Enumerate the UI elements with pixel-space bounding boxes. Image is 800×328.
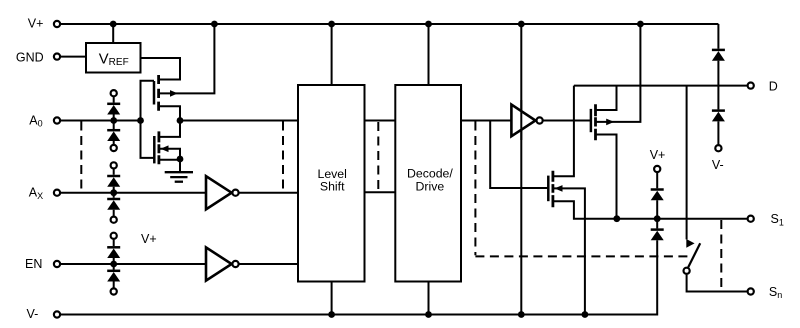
svg-text:V+: V+ (141, 232, 157, 246)
terminal S1 clamp V+ (654, 166, 660, 172)
diode AX clamp lower (107, 193, 120, 216)
diode D clamp lower (712, 86, 725, 145)
wire dashed other channel control bus (475, 255, 690, 257)
wire AX input (61, 192, 206, 194)
diode A0 clamp lower (107, 121, 120, 145)
node S1 clamp junction (654, 215, 661, 222)
transistor input NMOS (154, 121, 180, 165)
wire Level Shift to Decode upper (365, 120, 396, 122)
wire Sn contact to Sn terminal (687, 275, 747, 292)
wire dashed Decode to other channels (474, 122, 476, 256)
node V+ to Level Shift junction (328, 21, 335, 28)
terminal EN clamp top (111, 233, 117, 239)
node V+ to crossbar junction (518, 21, 525, 28)
wire S1 output line (617, 218, 747, 220)
wire dashed A0 to AX bus expansion (80, 122, 82, 192)
terminal GND (54, 54, 60, 60)
inverter AX buffer (206, 176, 298, 209)
wire crossbar over inverter redrawn (520, 100, 522, 140)
node input stage output (177, 117, 184, 124)
node A0 gate junction (137, 117, 144, 124)
svg-text:Sn: Sn (769, 285, 782, 300)
wire Level Shift to V- (331, 282, 333, 315)
switch Sn contact circle (684, 268, 690, 274)
block VREF box (86, 43, 141, 73)
wire VREF output to PMOS drain (141, 58, 181, 80)
wire Decode to V- (428, 282, 430, 315)
terminal A0 (54, 117, 60, 123)
terminal D (748, 83, 754, 89)
block Decode Drive box (395, 85, 461, 282)
wire Decode output (461, 120, 511, 122)
wire V- bottom rail (61, 240, 657, 314)
wire dashed between Level Shift and Decode (377, 122, 379, 191)
svg-text:V-: V- (712, 158, 724, 172)
transistor switch NMOS (548, 86, 617, 315)
node AX clamp junction (110, 189, 117, 196)
switch Sn arrow contact (686, 239, 694, 248)
inverter EN buffer (206, 247, 298, 280)
diode D clamp upper (712, 50, 725, 86)
wire Level Shift to V+ (331, 24, 333, 85)
switch Sn lever (688, 243, 700, 267)
transistor switch PMOS (591, 24, 641, 219)
svg-text:Shift: Shift (320, 180, 345, 194)
wire GND to VREF (61, 56, 86, 58)
terminal A0 clamp bottom (111, 145, 117, 151)
node A0 clamp junction (110, 117, 117, 124)
terminal A0 clamp top (111, 90, 117, 96)
terminal EN clamp bottom (111, 288, 117, 294)
terminal AX clamp top (111, 162, 117, 168)
diode EN clamp lower (107, 264, 120, 288)
wire dashed expansion left of Level Shift (282, 122, 284, 192)
svg-text:Drive: Drive (416, 180, 445, 194)
svg-text:V+: V+ (650, 148, 666, 162)
node EN clamp junction (110, 261, 117, 268)
node V+ to VREF junction (110, 21, 117, 28)
terminal S1 (748, 216, 754, 222)
node switch sources S1 junction (613, 215, 620, 222)
node V+ to Decode junction (425, 21, 432, 28)
node NMOS source to ground junction (177, 156, 184, 163)
wire Decode to V+ (428, 24, 430, 85)
wire input stage output to Level Shift (180, 120, 298, 122)
terminal Sn (748, 288, 754, 294)
terminal AX (54, 190, 60, 196)
terminal EN (54, 261, 60, 267)
wire V+ rail down to D clamp (717, 24, 719, 49)
wire VREF to V+ rail (112, 24, 114, 43)
wire common gate of input CMOS pair (141, 81, 155, 158)
svg-text:V-: V- (27, 307, 39, 321)
terminal AX clamp bottom (111, 217, 117, 223)
diode S1 clamp lower (651, 219, 664, 241)
wire D output line (574, 85, 747, 87)
wire Level Shift to Decode lower (365, 191, 396, 193)
terminal V+ (54, 21, 60, 27)
svg-text:VREF: VREF (99, 51, 129, 68)
block Level Shift box (298, 85, 365, 282)
svg-text:D: D (769, 79, 778, 93)
node V- to Decode junction (425, 311, 432, 318)
wire dashed S1 to Sn expansion (720, 220, 722, 289)
wire vertical supply crossbar (520, 24, 522, 315)
svg-text:Decode/: Decode/ (407, 167, 453, 181)
diode AX clamp upper (107, 169, 120, 193)
wire D line down to Sn switch (686, 86, 688, 240)
transistor input PMOS (154, 24, 214, 121)
node V- to crossbar junction (518, 311, 525, 318)
wire V+ top rail (61, 23, 719, 25)
svg-text:GND: GND (16, 50, 44, 64)
wire EN input (61, 263, 206, 265)
diode S1 clamp upper (651, 173, 664, 219)
svg-text:A0: A0 (29, 113, 42, 128)
node V- to switch NMOS body junction (582, 311, 589, 318)
diode EN clamp upper (107, 240, 120, 264)
diode A0 clamp upper (107, 97, 120, 121)
terminal V- (54, 311, 60, 317)
node V- to Level Shift junction (328, 311, 335, 318)
inverter switch driver (511, 105, 542, 137)
svg-text:V+: V+ (28, 17, 44, 31)
wire inverter to switch PMOS gate (544, 120, 591, 122)
svg-text:S1: S1 (771, 212, 784, 227)
wire A0 input (61, 120, 141, 122)
svg-text:AX: AX (29, 186, 43, 201)
node V+ to switch PMOS body junction (637, 21, 644, 28)
node V+ to PMOS body junction (211, 21, 218, 28)
svg-text:EN: EN (25, 257, 42, 271)
terminal D clamp V- (715, 145, 721, 151)
ground (165, 159, 193, 182)
wire Decode output to switch NMOS gate (490, 121, 548, 189)
